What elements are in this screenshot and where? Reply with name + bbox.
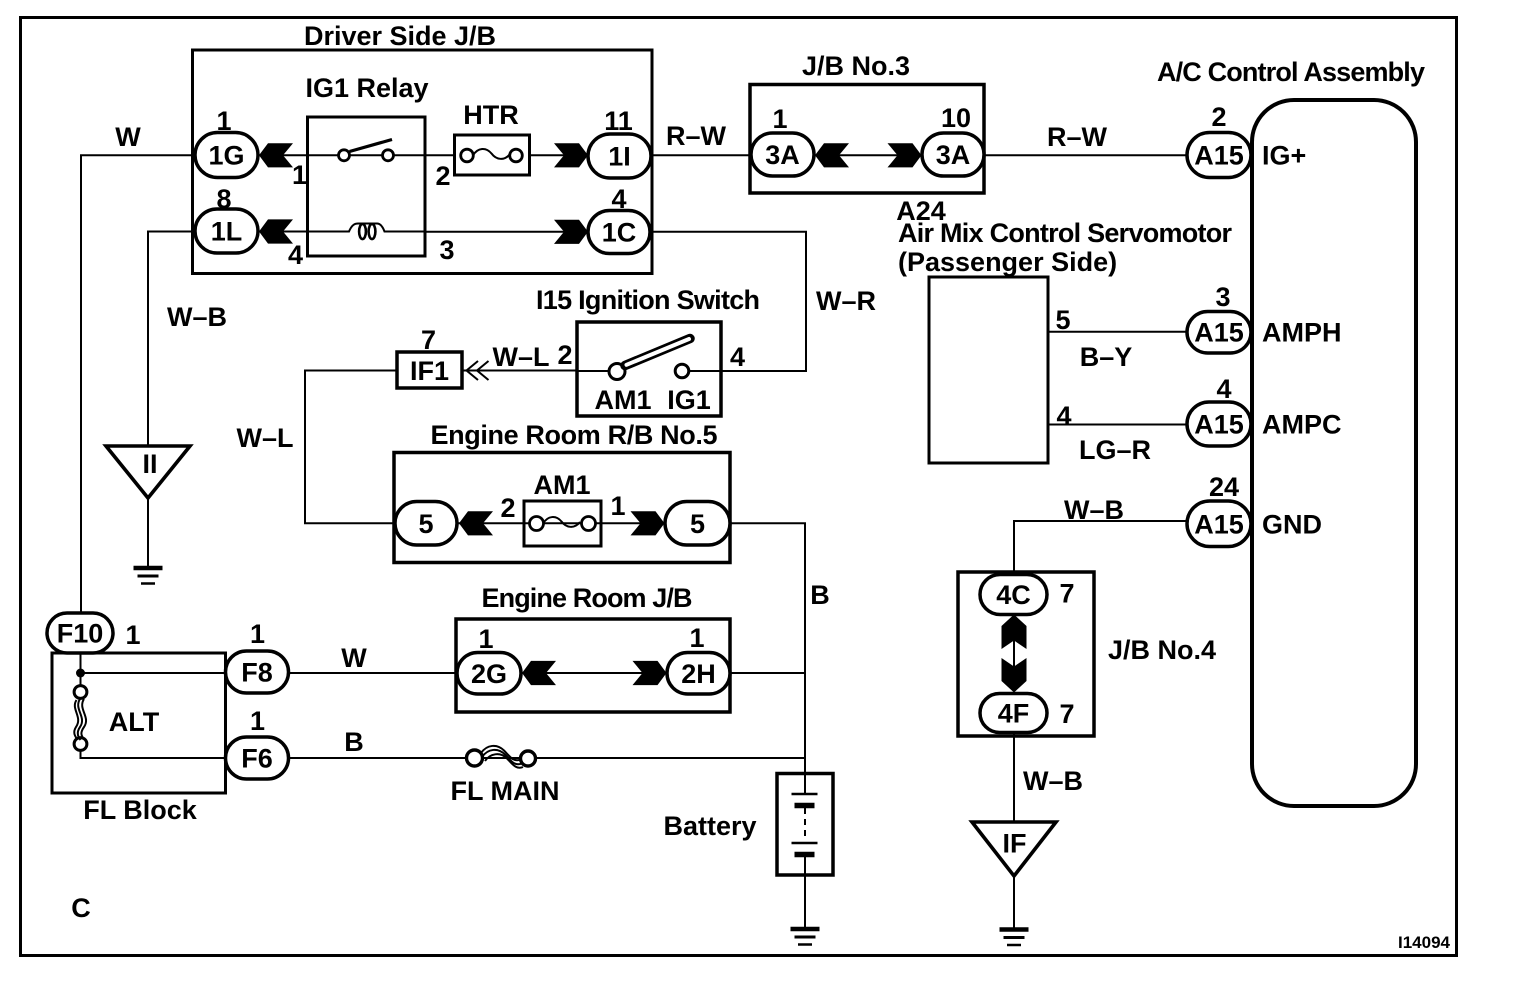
svg-text:AM1: AM1 <box>533 470 590 500</box>
svg-text:R–W: R–W <box>1047 122 1108 152</box>
ignition switch lever <box>625 339 690 366</box>
svg-text:A15: A15 <box>1194 410 1244 440</box>
svg-text:4F: 4F <box>998 699 1030 729</box>
svg-text:2G: 2G <box>471 659 507 689</box>
svg-text:2: 2 <box>557 340 572 370</box>
double arrow up inside J/B No.4 <box>1002 615 1027 650</box>
svg-text:IG1: IG1 <box>667 385 711 415</box>
connector F8 <box>226 651 289 693</box>
fuse AM1 box <box>524 501 601 546</box>
svg-text:4C: 4C <box>996 580 1031 610</box>
svg-text:W: W <box>115 122 141 152</box>
svg-text:Engine Room R/B No.5: Engine Room R/B No.5 <box>431 420 718 450</box>
battery cell plates <box>792 793 818 796</box>
wire ALT fusible link lower lead to F6 <box>81 748 229 758</box>
fuse HTR element <box>473 149 510 159</box>
svg-text:A15: A15 <box>1194 318 1244 348</box>
svg-text:4: 4 <box>1056 401 1071 431</box>
connector 1C pin 4 <box>588 211 650 254</box>
svg-text:W: W <box>341 643 367 673</box>
svg-text:AMPH: AMPH <box>1262 318 1342 348</box>
wire IF apex to ground <box>1013 876 1015 928</box>
arrow at 3A left <box>815 143 849 167</box>
battery box <box>777 774 833 876</box>
svg-text:FL Block: FL Block <box>83 795 198 825</box>
arrow at 1I <box>554 143 588 167</box>
svg-text:W–R: W–R <box>816 286 876 316</box>
svg-text:1I: 1I <box>608 142 631 172</box>
svg-text:Battery: Battery <box>663 811 756 841</box>
svg-text:1: 1 <box>250 619 265 649</box>
svg-text:Air Mix Control Servomotor: Air Mix Control Servomotor <box>898 218 1232 248</box>
svg-text:B–Y: B–Y <box>1080 342 1133 372</box>
svg-text:R–W: R–W <box>666 121 727 151</box>
double arrow down inside J/B No.4 <box>1002 658 1027 693</box>
svg-text:B: B <box>344 727 364 757</box>
wire W: F8 to 2G <box>288 672 458 674</box>
relay IG1 contact circles <box>339 150 350 161</box>
connector 2H pin 1 <box>667 653 730 695</box>
svg-text:IG1 Relay: IG1 Relay <box>305 73 428 103</box>
component box A24 Air Mix Control Servomotor <box>929 277 1048 463</box>
svg-text:B: B <box>810 580 830 610</box>
svg-text:F10: F10 <box>57 619 104 649</box>
connector 4F pin 7 <box>980 694 1047 733</box>
svg-text:F8: F8 <box>241 658 273 688</box>
svg-text:I15 Ignition Switch: I15 Ignition Switch <box>536 285 760 315</box>
connector 2G pin 1 <box>457 653 521 695</box>
arrow at 1L <box>259 219 293 243</box>
connector IF1 box <box>397 352 462 388</box>
wire 1G to relay pin1 <box>258 154 308 156</box>
connector F10 <box>47 613 113 653</box>
wire inside R/B No.5 row <box>456 522 667 524</box>
svg-text:2: 2 <box>1211 102 1226 132</box>
svg-text:2: 2 <box>500 493 515 523</box>
svg-text:11: 11 <box>604 106 633 136</box>
wire relay internal contact row <box>308 154 424 156</box>
svg-text:24: 24 <box>1209 472 1239 502</box>
relay IG1 box <box>308 117 426 256</box>
ignition switch contact AM1 <box>609 364 625 380</box>
wire battery negative to ground <box>804 857 806 928</box>
svg-text:(Passenger Side): (Passenger Side) <box>898 247 1117 277</box>
fuse HTR box <box>455 135 530 175</box>
fuse AM1 element <box>543 517 580 527</box>
connector 3A pin 1 <box>751 133 814 176</box>
svg-text:3A: 3A <box>936 140 971 170</box>
svg-text:4: 4 <box>288 240 303 270</box>
svg-text:IF1: IF1 <box>410 356 449 386</box>
wire inside J/B No.3 between 3A connectors <box>813 154 923 156</box>
svg-text:1: 1 <box>689 623 704 653</box>
svg-text:II: II <box>142 449 157 479</box>
wire relay pin2 to HTR <box>424 154 456 156</box>
ground IF triangle <box>972 822 1056 876</box>
svg-text:1C: 1C <box>602 218 637 248</box>
wire W-B: 1L left to II triangle <box>148 232 196 447</box>
connector 1L pin 8 <box>195 209 258 253</box>
component box I15 Ignition Switch <box>577 322 721 416</box>
svg-text:1: 1 <box>216 106 231 136</box>
svg-text:7: 7 <box>1059 579 1074 609</box>
arrow at 2H <box>633 661 667 685</box>
wire W: 1G left to vertical down to F10 <box>81 155 196 616</box>
junction block J/B No.3 <box>750 85 984 194</box>
svg-text:1: 1 <box>478 624 493 654</box>
svg-text:ALT: ALT <box>109 707 160 737</box>
connector 1I pin 11 <box>588 134 651 178</box>
svg-text:F6: F6 <box>241 744 273 774</box>
svg-text:1G: 1G <box>208 141 244 171</box>
component box FL Block <box>52 653 226 793</box>
arrow at 5 right <box>631 511 665 535</box>
svg-text:FL MAIN: FL MAIN <box>451 776 560 806</box>
wire relay pin3 to 1C <box>424 231 589 233</box>
ground symbol below IF <box>1000 930 1029 946</box>
svg-text:7: 7 <box>1059 699 1074 729</box>
arrow at 5 left <box>459 511 493 535</box>
svg-text:3: 3 <box>439 235 454 265</box>
wire 1L to relay pin4 <box>258 231 308 233</box>
connector A15 pin 4 <box>1187 402 1251 446</box>
connector 1G pin 1 <box>195 133 258 178</box>
wire inside J/B No.4 between arrows <box>1013 638 1015 670</box>
relay IG1 coil <box>308 224 424 232</box>
connector A15 pin 24 <box>1187 501 1251 547</box>
svg-text:3A: 3A <box>765 140 800 170</box>
wire B-Y: servo pin5 to A15 AMPH <box>1047 331 1189 333</box>
connector A15 pin 2 <box>1187 133 1251 178</box>
wire R-W: J/B No.3 to A15 IG+ <box>983 154 1189 156</box>
junction block Engine Room R/B No.5 <box>394 453 730 563</box>
svg-text:W–L: W–L <box>493 342 550 372</box>
svg-text:10: 10 <box>941 103 971 133</box>
connector 4C pin 7 <box>980 575 1047 615</box>
relay IG1 contact blade <box>350 140 393 152</box>
svg-text:A15: A15 <box>1194 510 1244 540</box>
svg-text:W–B: W–B <box>167 302 227 332</box>
svg-text:1: 1 <box>250 706 265 736</box>
svg-text:5: 5 <box>690 509 705 539</box>
svg-text:4: 4 <box>611 184 626 214</box>
wire W: junction dot to F8 <box>81 672 229 674</box>
wire B: right 5 to vertical, down past 2H to battery <box>729 523 805 774</box>
wire ignition switch internal right <box>687 370 722 372</box>
wire inside Engine Room J/B between 2G and 2H <box>521 672 668 674</box>
svg-text:3: 3 <box>1215 282 1230 312</box>
svg-text:IG+: IG+ <box>1262 141 1306 171</box>
wire W-R: 1C right down to ignition switch pin 4 <box>648 232 806 371</box>
IF1 double chevron marks <box>467 361 479 380</box>
svg-text:Driver Side J/B: Driver Side J/B <box>304 21 496 51</box>
connector A15 pin 3 <box>1187 312 1251 354</box>
svg-text:1: 1 <box>125 620 140 650</box>
arrow at 3A right <box>888 143 922 167</box>
fusible link FL MAIN circles <box>467 750 483 766</box>
svg-text:1L: 1L <box>211 217 243 247</box>
svg-text:C: C <box>71 893 91 923</box>
svg-text:LG–R: LG–R <box>1079 435 1151 465</box>
arrow at 2G <box>522 661 556 685</box>
svg-text:4: 4 <box>1216 374 1231 404</box>
connector F6 <box>226 737 289 779</box>
svg-text:J/B No.3: J/B No.3 <box>802 51 910 81</box>
wire W-B: II apex to ground <box>147 498 149 566</box>
ground symbol below battery <box>791 929 820 945</box>
svg-text:W–B: W–B <box>1064 495 1124 525</box>
svg-text:W–B: W–B <box>1023 766 1083 796</box>
svg-text:AM1: AM1 <box>594 385 651 415</box>
connector 5 pin 1 <box>665 502 730 546</box>
svg-text:I14094: I14094 <box>1398 933 1451 952</box>
junction block Engine Room J/B <box>456 619 730 712</box>
svg-text:5: 5 <box>1055 305 1070 335</box>
svg-text:7: 7 <box>421 325 436 355</box>
svg-text:AMPC: AMPC <box>1262 410 1342 440</box>
svg-text:1: 1 <box>292 160 307 190</box>
wire W-L: IF1 left down to R/B No.5 left <box>305 371 398 524</box>
wire B: F6 through FL MAIN to battery vertical <box>288 757 805 759</box>
wire ignition switch internal left <box>578 370 612 372</box>
junction block Driver Side J/B <box>193 50 653 274</box>
fusible link ALT circles <box>74 686 87 699</box>
arrow at 1C <box>554 220 588 244</box>
svg-text:A15: A15 <box>1194 141 1244 171</box>
ground II triangle <box>106 446 190 498</box>
connector 3A pin 10 <box>922 133 984 176</box>
connector 5 pin 2 <box>395 502 457 546</box>
svg-text:J/B No.4: J/B No.4 <box>1108 635 1216 665</box>
svg-text:IF: IF <box>1003 829 1027 859</box>
svg-text:1: 1 <box>610 491 625 521</box>
A/C Control Assembly outline <box>1252 100 1416 806</box>
svg-text:2H: 2H <box>681 659 716 689</box>
wire ignition AM1 pin to IF1 <box>462 370 578 372</box>
svg-text:1: 1 <box>772 104 787 134</box>
svg-text:Engine Room J/B: Engine Room J/B <box>482 583 693 613</box>
wire W-B: 4F down to IF triangle <box>1013 730 1015 822</box>
node junction dot ALT <box>76 669 85 678</box>
svg-text:A/C Control Assembly: A/C Control Assembly <box>1157 57 1425 87</box>
fusible link ALT squiggle <box>78 699 82 740</box>
wire 2H to B vertical <box>729 672 805 674</box>
wire HTR to 1I <box>528 154 589 156</box>
svg-text:GND: GND <box>1262 510 1322 540</box>
wire W: F10 to junction dot <box>80 650 82 688</box>
svg-text:W–L: W–L <box>237 423 294 453</box>
wire R-W: 1I to J/B No.3 <box>650 154 753 156</box>
junction block J/B No.4 <box>958 572 1094 736</box>
svg-text:HTR: HTR <box>463 100 519 130</box>
wire W-B: A15 GND left then down to 4C <box>1014 521 1189 577</box>
wire LG-R: servo pin4 to A15 AMPC <box>1047 424 1189 426</box>
svg-text:5: 5 <box>418 509 433 539</box>
svg-text:8: 8 <box>216 184 231 214</box>
arrow at 1G <box>259 143 293 167</box>
fusible link FL MAIN squiggle <box>481 746 521 760</box>
svg-text:4: 4 <box>730 342 745 372</box>
svg-text:2: 2 <box>435 161 450 191</box>
ignition switch contact IG1 <box>675 364 689 378</box>
ground symbol below II <box>134 568 163 584</box>
